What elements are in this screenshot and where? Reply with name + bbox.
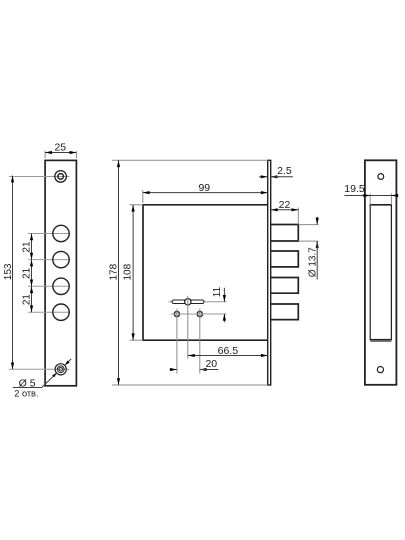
svg-text:21: 21 bbox=[21, 294, 32, 306]
dimension 108 bbox=[122, 205, 143, 340]
hole circle 3 centerline bbox=[28, 285, 70, 287]
top screw hole centerline bbox=[9, 176, 70, 178]
dimension diameter 13.7 bbox=[298, 217, 318, 280]
svg-text:153: 153 bbox=[3, 263, 14, 280]
bolt 3 bbox=[271, 278, 298, 294]
dimension 21 (circles 2-3) bbox=[21, 260, 32, 287]
dimension 25 bbox=[45, 141, 76, 158]
strike plate bottom hole bbox=[377, 367, 383, 373]
key cam centerline bbox=[169, 301, 227, 303]
svg-text:Ø 13.7: Ø 13.7 bbox=[308, 247, 319, 277]
strike plate top hole bbox=[378, 174, 384, 180]
svg-text:21: 21 bbox=[21, 267, 32, 279]
extension line from left fixing hole down bbox=[176, 309, 178, 374]
dimension 21 (circles 3-4) bbox=[21, 286, 32, 312]
dimension 99 bbox=[143, 182, 268, 203]
strike plate outline bbox=[365, 160, 397, 384]
hole circle 4 centerline bbox=[28, 311, 70, 313]
strike plate cutout bottom thick line bbox=[370, 340, 391, 342]
svg-text:2 отв.: 2 отв. bbox=[14, 388, 38, 398]
svg-text:20: 20 bbox=[205, 358, 217, 370]
svg-text:99: 99 bbox=[198, 182, 210, 194]
dimension 19.5 bbox=[344, 183, 396, 205]
top screw hole bbox=[55, 171, 67, 183]
hole circle 2 centerline bbox=[28, 259, 70, 261]
dimension 22 bbox=[271, 199, 298, 224]
fixing hole right bbox=[197, 311, 202, 316]
faceplate strip (side view) bbox=[268, 160, 271, 385]
svg-text:22: 22 bbox=[279, 199, 291, 211]
dimension 11 bbox=[212, 286, 225, 322]
fixing holes centerline bbox=[171, 313, 227, 315]
hole circle 3 bbox=[53, 278, 69, 294]
svg-text:2.5: 2.5 bbox=[277, 165, 292, 177]
key cam (spindle bar) bbox=[172, 299, 204, 305]
lock body outline bbox=[143, 205, 268, 340]
dimension 153 bbox=[3, 176, 14, 370]
hole circle 4 bbox=[53, 304, 69, 320]
dimension 20 bbox=[170, 358, 219, 370]
dimension 66.5 bbox=[188, 345, 268, 357]
fixing hole left bbox=[174, 311, 179, 316]
svg-text:11: 11 bbox=[212, 286, 223, 297]
svg-text:19.5: 19.5 bbox=[344, 183, 365, 195]
front plate outline bbox=[45, 160, 76, 385]
leader diameter 5, 2 holes bbox=[13, 359, 71, 399]
dimension 2.5 bbox=[259, 165, 293, 177]
bolt 2 bbox=[271, 251, 298, 267]
hole circle 1 centerline bbox=[28, 233, 70, 235]
svg-text:25: 25 bbox=[54, 141, 66, 153]
extension line from cam center down bbox=[187, 296, 189, 359]
svg-text:66.5: 66.5 bbox=[218, 345, 239, 357]
bolt 1 bbox=[271, 225, 298, 242]
bottom screw hole bbox=[55, 364, 66, 375]
dimension 178 bbox=[108, 160, 267, 385]
svg-text:108: 108 bbox=[122, 263, 133, 280]
strike plate cutout bbox=[370, 205, 391, 340]
bolt 4 bbox=[271, 304, 298, 320]
bottom screw hole centerline bbox=[9, 368, 70, 370]
svg-text:21: 21 bbox=[21, 241, 32, 253]
dimension 21 (circles 1-2) bbox=[21, 234, 32, 260]
extension line from right fixing hole down bbox=[199, 309, 201, 374]
svg-text:178: 178 bbox=[108, 263, 119, 280]
hole circle 1 bbox=[53, 225, 69, 241]
hole circle 2 bbox=[53, 251, 69, 267]
